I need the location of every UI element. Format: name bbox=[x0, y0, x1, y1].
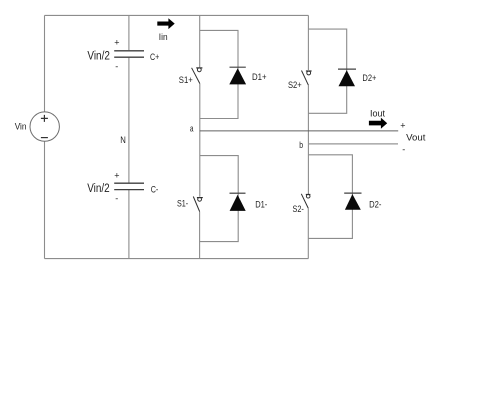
svg-text:Iin: Iin bbox=[159, 32, 168, 43]
svg-text:-: - bbox=[115, 193, 118, 203]
svg-text:D1+: D1+ bbox=[252, 72, 267, 83]
svg-text:C-: C- bbox=[151, 184, 159, 195]
svg-text:+: + bbox=[114, 38, 119, 48]
svg-text:-: - bbox=[402, 144, 405, 154]
svg-text:D1-: D1- bbox=[255, 199, 267, 210]
svg-text:S2-: S2- bbox=[293, 204, 304, 215]
svg-text:a: a bbox=[190, 124, 194, 135]
svg-text:S1+: S1+ bbox=[179, 75, 193, 86]
svg-text:S1-: S1- bbox=[177, 199, 188, 210]
svg-text:-: - bbox=[115, 62, 118, 72]
svg-text:b: b bbox=[299, 140, 303, 151]
svg-text:S2+: S2+ bbox=[288, 80, 302, 91]
svg-text:N: N bbox=[120, 135, 126, 146]
svg-text:D2+: D2+ bbox=[362, 73, 376, 84]
svg-text:Iout: Iout bbox=[370, 109, 385, 120]
svg-text:Vin: Vin bbox=[15, 122, 27, 133]
svg-text:Vout: Vout bbox=[406, 133, 426, 144]
svg-text:+: + bbox=[114, 170, 119, 180]
svg-text:+: + bbox=[400, 121, 405, 131]
svg-text:D2-: D2- bbox=[369, 199, 381, 210]
svg-text:C+: C+ bbox=[150, 52, 160, 63]
svg-text:Vin/2: Vin/2 bbox=[87, 48, 110, 62]
svg-text:Vin/2: Vin/2 bbox=[87, 181, 110, 195]
